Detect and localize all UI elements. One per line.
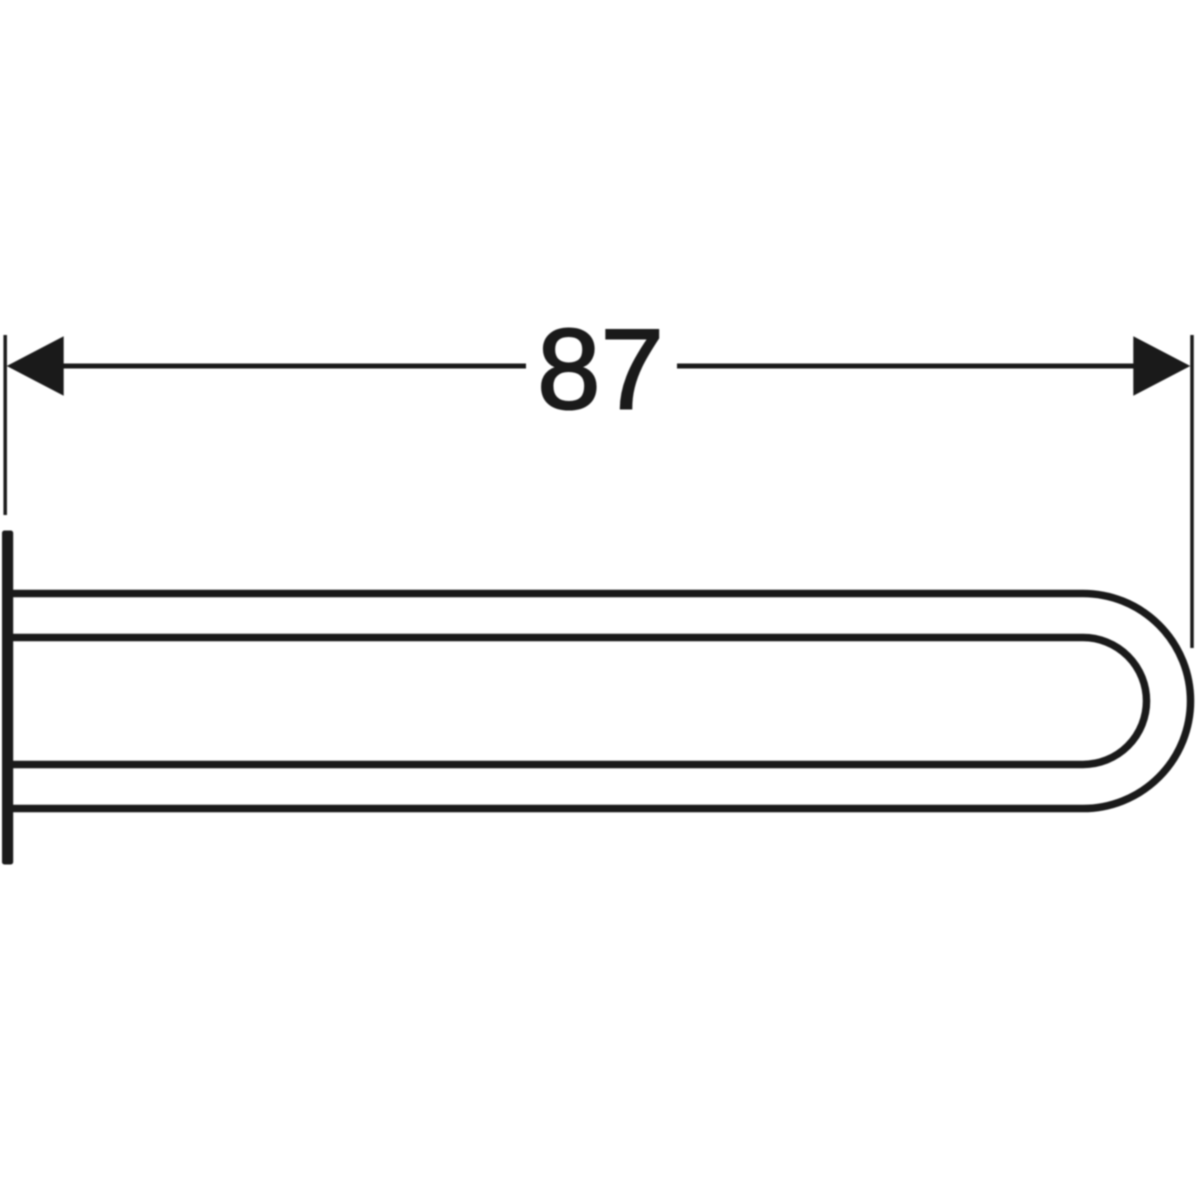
grab bar tube inner outline [7, 638, 1147, 765]
dimension line left segment [15, 364, 526, 369]
dimension line right segment [677, 364, 1182, 369]
right extension line [1190, 335, 1194, 648]
svg-text:87: 87 [537, 307, 664, 434]
wall plate [2, 531, 13, 865]
right arrowhead [1133, 336, 1190, 396]
left arrowhead [7, 336, 64, 396]
grab bar tube outer outline [7, 594, 1191, 809]
left extension line [3, 335, 7, 515]
